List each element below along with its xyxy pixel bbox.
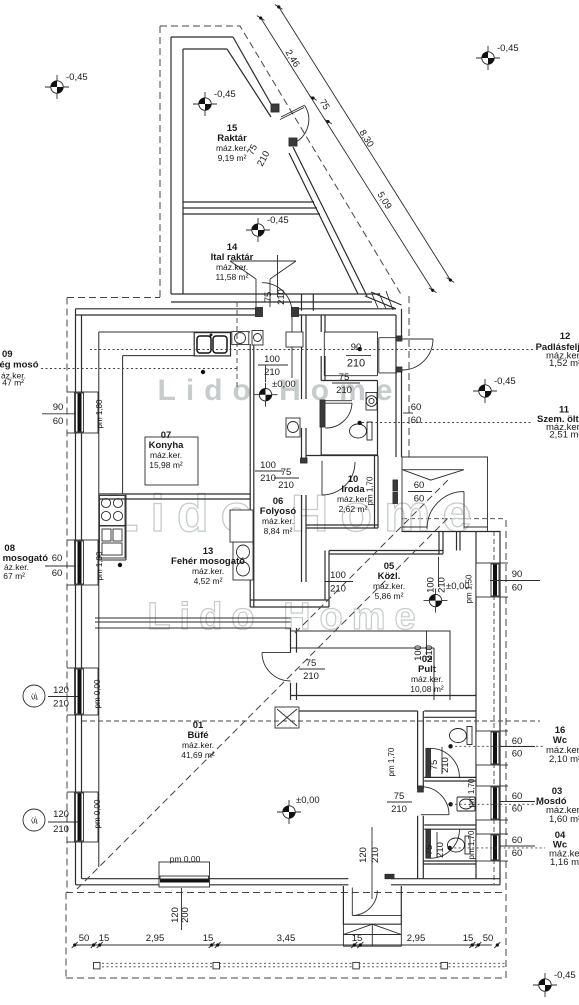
wall iroda block x374-378 east [375,456,379,529]
toilet room16 [450,727,473,745]
door bufe-pult leaf and swing [262,653,291,681]
svg-text:75: 75 [394,791,405,802]
washbasin room11 round [366,393,377,411]
hatched diagonal wall stub at north-east [365,292,402,309]
wall bufe north y618-628 [95,618,291,628]
window E2 east room16 [476,731,500,765]
cabinet corridor top [286,332,303,347]
wall main north [76,309,397,315]
svg-text:máz.ker.: máz.ker. [337,494,369,504]
svg-text:-0,45: -0,45 [66,72,88,83]
svg-text:50: 50 [79,933,90,944]
svg-text:47 m²: 47 m² [2,378,24,388]
svg-text:Lido Home: Lido Home [147,596,424,638]
svg-text:15,98 m²: 15,98 m² [149,460,183,470]
wall canopy south y531 [402,531,501,533]
svg-text:15: 15 [463,933,474,944]
window W2 west 60/60 [75,540,99,585]
svg-text:-0,45: -0,45 [214,89,236,100]
window E4 east room04 [476,834,500,861]
dotted leader room11 to label [362,422,533,424]
door D12 exterior leaf and swing [402,339,433,370]
dotted leader label09 y368 [41,368,237,370]
svg-text:60: 60 [414,480,425,491]
round washbasin kezmoso [232,332,249,345]
svg-text:4,52 m²: 4,52 m² [194,576,223,586]
svg-text:60: 60 [512,835,523,846]
wall bufe/pult partition x290-296 [291,628,297,700]
counter room13 right of corridor wall [230,510,253,542]
porch steps [343,924,401,946]
svg-text:210: 210 [370,847,381,863]
svg-text:75: 75 [263,292,274,303]
washbasin corridor room11 [286,418,300,437]
door D15 jamb lower [289,138,297,146]
wall main west outer [75,309,77,885]
diagonal dashed D1 45deg [77,517,449,889]
svg-text:pm 1,80: pm 1,80 [95,551,104,580]
door room11 leaf and swing [325,401,352,428]
wall between room 15 and 14 [183,201,314,203]
dot room13 leader [118,563,122,567]
svg-text:pm 1,70: pm 1,70 [467,778,476,807]
svg-text:2,51 m²: 2,51 m² [549,430,579,441]
svg-text:ég mosó: ég mosó [0,360,39,371]
terrace post 2 [213,962,220,969]
door iroda leaf and swing [322,461,355,495]
marker -0,45 top right [476,46,500,70]
opening room10 door in corridor east wall [301,460,308,495]
svg-text:50: 50 [483,933,494,944]
door D12 exterior jambs [396,336,402,341]
wall room04 south inside y861-864 [423,861,476,864]
wall upper building diagonal outer with door opening [233,37,367,296]
kitchen island rectangle [145,437,198,485]
svg-text:210: 210 [53,824,69,835]
terrace dotted edge [93,963,506,967]
svg-text:90: 90 [53,402,64,413]
svg-text:100: 100 [260,460,276,471]
wall corridor west x250 [250,344,254,607]
leader line corridor marker [265,365,267,382]
doorway wall below canopy x456-460 [457,532,461,551]
svg-text:210: 210 [276,289,287,305]
svg-text:15: 15 [99,933,110,944]
wall upper building diagonal inner [227,49,358,294]
room12 interior box [324,332,377,376]
wall room11 north y380 [321,380,377,382]
svg-text:100: 100 [413,645,424,661]
site boundary dashed outline [66,26,506,978]
svg-text:67 m²: 67 m² [3,571,25,581]
dashed overhang east x494 [493,531,495,884]
svg-text:10,08 m²: 10,08 m² [410,684,444,694]
svg-text:60: 60 [414,494,425,505]
wall main south door opening [348,878,391,886]
svg-text:210: 210 [330,584,346,595]
svg-text:60: 60 [53,416,64,427]
wall main west inner [81,315,83,879]
dashed line canopy area [402,518,506,520]
wall kozl north y550-554 [329,551,443,555]
svg-text:200: 200 [180,907,191,923]
svg-text:210: 210 [303,671,319,682]
svg-text:60: 60 [411,402,422,413]
svg-text:15: 15 [203,933,214,944]
wall main east lower wide part [476,531,500,885]
svg-text:75: 75 [339,372,350,383]
marker +-0,00 kozl [424,589,448,613]
toilet room04 [448,836,471,854]
svg-text:2,62 m²: 2,62 m² [339,504,368,514]
svg-text:210: 210 [347,358,365,370]
svg-text:2,95: 2,95 [146,933,165,944]
room12 east lobby to exterior door [379,338,397,373]
svg-text:±0,00: ±0,00 [296,795,320,806]
svg-text:pm 0,00: pm 0,00 [170,854,201,864]
svg-text:41,69 m²: 41,69 m² [181,750,215,760]
svg-text:-0,45: -0,45 [554,970,576,981]
svg-text:5,86 m²: 5,86 m² [375,591,404,601]
opening room11 door in corridor east wall [301,399,308,428]
terrace post 1 [94,962,101,969]
marker -0,45 room15 [193,92,217,116]
svg-text:pm 1,80: pm 1,80 [95,399,104,428]
svg-text:120: 120 [53,809,69,820]
door room16 swing [431,748,460,777]
svg-text:120: 120 [358,847,369,863]
svg-text:210: 210 [424,645,435,661]
svg-text:210: 210 [391,804,407,815]
svg-text:210: 210 [435,842,446,858]
svg-text:60: 60 [512,736,523,747]
window W4 west 120/210 new [75,792,99,842]
marker +-0,00 bufe [277,800,301,824]
terrace post 3 [353,962,360,969]
svg-text:pm 0,00: pm 0,00 [93,679,102,708]
wall iroda north y455 [306,455,378,457]
dot leader room03 [448,802,452,806]
svg-text:100: 100 [264,354,280,365]
dot leader room16 [448,744,452,748]
svg-text:9,19 m²: 9,19 m² [218,153,247,163]
svg-text:60: 60 [52,553,63,564]
door D15 jamb upper [271,104,279,112]
svg-text:60: 60 [411,415,422,426]
svg-text:11,58 m²: 11,58 m² [216,272,249,282]
sink unit room13 fehermosogato [233,542,253,580]
door room11 jamb [320,400,325,427]
svg-text:60: 60 [512,583,523,594]
bottom dimension line [75,944,492,946]
terrace post 4 [441,962,448,969]
door room16 jamb [426,748,431,777]
marker -0,45 far west [45,75,69,99]
wall corridor south y600-607 [250,600,329,607]
svg-text:100: 100 [426,577,437,593]
fraction 120/210 uj window W3 [23,685,45,707]
wall main north openings covered [263,308,292,317]
svg-text:máz.ker.: máz.ker. [411,674,443,684]
dimension line D 8,30 [279,7,451,280]
svg-text:máz.ker.: máz.ker. [216,262,248,272]
door room04 swing [431,829,460,858]
canopy outline [402,457,488,531]
svg-text:100: 100 [330,570,346,581]
dot leader room11 [358,421,362,425]
kitchen sink unit under stove [100,526,126,558]
kitchen counter low part [99,494,126,560]
svg-text:8,84 m²: 8,84 m² [264,526,293,536]
kitchen dot [201,370,205,374]
wall main east upper narrow part [396,309,402,457]
svg-text:210: 210 [336,385,352,396]
svg-text:90: 90 [351,342,362,353]
svg-text:-0,45: -0,45 [494,376,516,387]
door D14 jambs [256,308,263,317]
stove 4 burners [100,496,126,526]
sink room03 [457,797,475,811]
svg-text:210: 210 [53,699,69,710]
window W3 west 120/210 new [75,668,99,715]
wall iroda south y525-528 [306,525,378,528]
wall room12 west x321-325 [321,315,325,381]
chimney block [275,707,299,728]
svg-text:210: 210 [278,480,294,491]
svg-text:60: 60 [512,848,523,859]
door D15 leaf and swing [280,105,309,143]
svg-text:60: 60 [512,804,523,815]
svg-text:±0,00: ±0,00 [272,379,296,390]
svg-text:-0,45: -0,45 [267,215,289,226]
svg-text:máz.ker.: máz.ker. [150,450,182,460]
svg-text:15: 15 [352,933,363,944]
wall upper building west outer [170,37,172,294]
wall kozl west x325-329 [325,551,329,608]
svg-text:90: 90 [512,569,523,580]
wall stubs above corridor east wall [302,294,314,311]
canopy bottom sill [402,526,488,528]
wall upper building south junction [171,293,380,295]
pult counter rectangle [290,631,450,700]
marker -0,45 east [473,379,497,403]
toilet room11 [350,422,373,440]
svg-text:60: 60 [52,568,63,579]
room11 interior walls [321,381,377,456]
wall room03/04 divider y825-829 [424,825,476,829]
wall room16 north inside [424,716,476,718]
svg-text:60: 60 [512,791,523,802]
svg-text:120: 120 [53,685,69,696]
svg-text:60: 60 [512,749,523,760]
wall main south [76,879,501,885]
svg-text:75: 75 [424,845,435,856]
svg-text:2,10 m²: 2,10 m² [549,754,579,765]
svg-text:75: 75 [429,760,440,771]
wall wc-block west x417-423 [418,711,424,879]
dashed vent line y721 [82,720,540,722]
entry door jamb blocks [393,480,398,491]
door frame mark south wall [385,874,394,878]
svg-text:-0,45: -0,45 [497,43,519,54]
svg-text:máz.ker.: máz.ker. [262,516,294,526]
window W1 west 90/60 [75,392,99,433]
wall main south window opening [159,878,210,886]
svg-text:75: 75 [306,658,317,669]
porch door leaf and swing [352,888,377,916]
double sink kitchen north [194,333,230,356]
door D14 leaf and swing from room 14 [262,283,292,378]
svg-text:75: 75 [281,467,292,478]
svg-text:210: 210 [264,367,280,378]
svg-text:1,52 m²: 1,52 m² [549,358,579,369]
entry door leaf and swing [427,492,464,529]
svg-text:±0,00: ±0,00 [446,581,470,592]
wall kitchen south / room 13 north [99,494,250,499]
dashed demolition line kitchen [236,302,238,390]
svg-text:1,60 m²: 1,60 m² [549,814,579,825]
small basin right [252,331,263,346]
wall corridor east x301-306 [302,315,307,582]
porch step diagonals [343,924,401,934]
window S1 south 120/200 [159,862,210,887]
wall upper building north [171,36,233,38]
svg-text:máz.ker.: máz.ker. [216,143,248,153]
dimension line C 2,46 / 75 / 5,09 [261,18,433,290]
svg-text:pm 1,70: pm 1,70 [467,830,476,859]
long dotted leader line y349 [90,349,534,351]
svg-text:máz.ker.: máz.ker. [192,566,224,576]
canopy V roof [402,470,464,480]
svg-text:210: 210 [260,473,276,484]
wall room16/03 divider y777 [424,777,476,781]
svg-text:1,16 m²: 1,16 m² [550,857,579,868]
marker +-0,00 corridor [254,383,278,407]
svg-text:pm 1,70: pm 1,70 [387,747,396,776]
wall kozl east vertical x439-443 [439,531,443,554]
marker -0,45 bottom right [533,973,557,997]
kitchen counter along west and north [99,332,250,867]
svg-text:pm 1,70: pm 1,70 [366,476,375,505]
vent funnel above door D14 [230,261,296,307]
svg-text:2,95: 2,95 [407,933,426,944]
svg-text:máz.ker.: máz.ker. [182,740,214,750]
wall pult south y695-711 [291,696,477,712]
svg-text:210: 210 [440,757,451,773]
svg-text:12: 12 [560,331,571,342]
dot leader room12 [358,347,362,351]
dot leader room04 [448,846,452,850]
door room04 jamb [426,829,431,858]
svg-text:09: 09 [2,349,13,360]
window E1 east 90/60 [476,563,500,597]
marker -0,45 room14 [246,218,270,242]
diagonal dashed D2 [295,480,448,633]
svg-text:pm 0,00: pm 0,00 [93,799,102,828]
porch outline south entrance [343,886,401,924]
svg-text:3,45: 3,45 [277,933,296,944]
fraction 120/210 uj window W4 [23,809,45,831]
window E3 east room03 [476,786,500,820]
door room03 leaf and swing [421,787,449,815]
door iroda jamb [301,458,308,463]
svg-text:máz.ker.: máz.ker. [373,581,405,591]
